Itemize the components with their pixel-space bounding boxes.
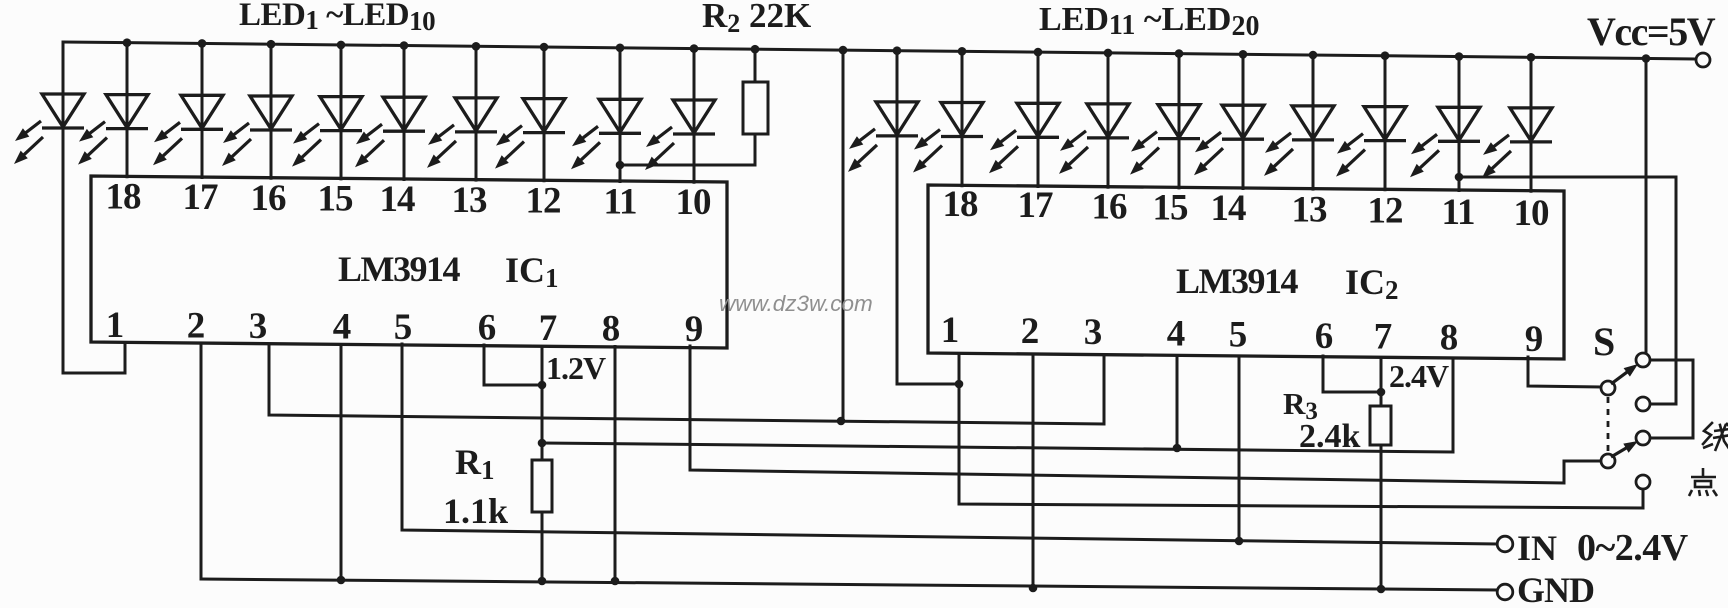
wire bbox=[270, 44, 273, 180]
svg-text:17: 17 bbox=[1018, 185, 1054, 226]
wire pin9 IC2 to switch bbox=[1528, 357, 1601, 387]
svg-text:1: 1 bbox=[941, 310, 960, 351]
resistor R3 bbox=[1370, 406, 1391, 445]
svg-text:LM3914: LM3914 bbox=[1176, 261, 1298, 301]
junction bbox=[1377, 388, 1386, 397]
svg-text:10: 10 bbox=[676, 182, 712, 223]
junction bbox=[893, 46, 902, 55]
wire Vcc drop bbox=[842, 50, 845, 421]
wire pin1 link bbox=[63, 343, 125, 373]
LED LED5 bbox=[292, 97, 362, 167]
LED LED6 bbox=[355, 97, 425, 167]
wire bbox=[961, 51, 964, 187]
wire pin5 IC1 to IN bus bbox=[402, 344, 1497, 544]
resistor R2 bbox=[620, 49, 768, 165]
label R1 bbox=[455, 442, 495, 485]
wire GND bus bbox=[201, 579, 1497, 590]
switch S dot throw bbox=[1636, 475, 1650, 489]
label 点 bbox=[1689, 468, 1717, 496]
svg-text:12: 12 bbox=[1368, 191, 1403, 232]
label IN 0~2.4V bbox=[1517, 527, 1689, 569]
junction bbox=[1527, 53, 1536, 62]
svg-text:17: 17 bbox=[183, 177, 219, 218]
svg-text:4: 4 bbox=[333, 307, 352, 348]
svg-text:16: 16 bbox=[1092, 186, 1128, 227]
label 2.4V bbox=[1389, 358, 1449, 394]
junction bbox=[337, 576, 346, 585]
wire bbox=[201, 43, 204, 179]
switch S lower pole bbox=[1601, 454, 1615, 468]
svg-text:5: 5 bbox=[1229, 314, 1248, 355]
svg-text:7: 7 bbox=[539, 308, 558, 349]
label S bbox=[1593, 319, 1615, 364]
label LM3914 IC1 bbox=[338, 249, 559, 293]
wire bbox=[1458, 57, 1461, 193]
label 2.4k bbox=[1299, 418, 1361, 455]
junction bbox=[1239, 50, 1248, 59]
op-amp IC2 LM3914 box bbox=[928, 185, 1564, 359]
junction bbox=[1173, 444, 1182, 453]
wire R1 bottom bbox=[541, 512, 544, 581]
wire bbox=[1242, 54, 1245, 190]
LED LED9 bbox=[571, 99, 641, 169]
wire throw tie loop bbox=[1650, 360, 1693, 438]
ground terminal GND bbox=[1497, 584, 1513, 600]
LED LED4 bbox=[222, 96, 292, 166]
junction bbox=[538, 577, 547, 586]
junction bbox=[400, 41, 409, 50]
junction bbox=[616, 44, 625, 53]
switch linkage bbox=[1607, 397, 1610, 452]
svg-text:18: 18 bbox=[106, 177, 142, 218]
svg-text:18: 18 bbox=[943, 184, 979, 225]
junction bbox=[1235, 537, 1244, 546]
svg-text:7: 7 bbox=[1374, 317, 1393, 358]
label R2 22K bbox=[702, 0, 811, 38]
junction bbox=[1309, 51, 1318, 60]
label 线 bbox=[1703, 423, 1728, 451]
LED LED1 bbox=[14, 94, 84, 164]
junction bbox=[616, 161, 625, 170]
wire pin4 IC2 bbox=[1176, 355, 1179, 448]
junction bbox=[1642, 54, 1651, 63]
pin labels IC2 bottom 1-9 bbox=[941, 310, 1544, 360]
svg-text:3: 3 bbox=[249, 306, 268, 347]
svg-text:2: 2 bbox=[187, 306, 206, 347]
wire 1.2V bus bbox=[542, 358, 1453, 452]
wire bbox=[1312, 55, 1315, 191]
LED LED15 bbox=[1130, 105, 1200, 175]
svg-text:www.dz3w.com: www.dz3w.com bbox=[719, 291, 873, 316]
svg-text:14: 14 bbox=[1211, 188, 1247, 229]
wire pin5 IC2 bbox=[1238, 355, 1241, 541]
wire LED1 column bbox=[62, 42, 65, 373]
LED LED19 bbox=[1410, 107, 1480, 177]
wire pin7 IC1 bbox=[541, 345, 544, 460]
LED LED11 bbox=[848, 102, 918, 172]
svg-text:1: 1 bbox=[106, 305, 125, 346]
svg-text:1.2V: 1.2V bbox=[546, 350, 606, 386]
svg-text:LED1 ~LED10: LED1 ~LED10 bbox=[239, 0, 435, 36]
wire pin2 IC1 bbox=[200, 343, 203, 579]
svg-text:1.1k: 1.1k bbox=[443, 491, 508, 531]
LED LED14 bbox=[1059, 104, 1129, 174]
label R3 bbox=[1283, 386, 1318, 425]
wire pin11 IC2 to throw bbox=[1459, 177, 1676, 404]
junction bbox=[837, 417, 846, 426]
LED LED13 bbox=[989, 103, 1059, 173]
junction bbox=[123, 38, 132, 47]
junction bbox=[1034, 48, 1043, 57]
pin labels IC1 top 18-10 bbox=[106, 177, 712, 224]
wire pin7 IC2 bbox=[1380, 356, 1383, 406]
LED LED8 bbox=[495, 99, 565, 169]
svg-text:2: 2 bbox=[1021, 311, 1040, 352]
svg-text:8: 8 bbox=[1440, 318, 1459, 359]
wire bbox=[126, 43, 129, 179]
wire bbox=[1384, 56, 1387, 192]
junction bbox=[337, 41, 346, 50]
junction bbox=[538, 439, 547, 448]
svg-text:0~2.4V: 0~2.4V bbox=[1577, 527, 1689, 569]
svg-text:10: 10 bbox=[1514, 193, 1550, 234]
svg-text:3: 3 bbox=[1084, 312, 1103, 353]
svg-text:4: 4 bbox=[1167, 314, 1186, 355]
svg-text:R2 22K: R2 22K bbox=[702, 0, 811, 38]
switch S upper pole bbox=[1601, 381, 1615, 395]
junction bbox=[1455, 52, 1464, 61]
junction bbox=[1104, 49, 1113, 58]
svg-text:15: 15 bbox=[1153, 187, 1189, 228]
label 1.1k bbox=[443, 491, 508, 531]
svg-text:14: 14 bbox=[380, 179, 416, 220]
wire Vcc top rail bbox=[63, 42, 1696, 59]
wire bbox=[1107, 53, 1110, 189]
svg-text:6: 6 bbox=[1315, 316, 1334, 357]
wire bbox=[619, 48, 622, 183]
junction bbox=[198, 39, 207, 48]
switch S upper arrow bbox=[1611, 364, 1638, 384]
junction bbox=[690, 44, 699, 53]
pin labels IC2 top 18-10 bbox=[943, 184, 1550, 234]
junction bbox=[267, 40, 276, 49]
LED LED10 bbox=[645, 100, 715, 170]
svg-text:S: S bbox=[1593, 319, 1615, 364]
svg-text:8: 8 bbox=[602, 309, 621, 350]
svg-text:13: 13 bbox=[452, 180, 488, 221]
switch S upper throw bbox=[1636, 353, 1650, 367]
wire LED11 column bbox=[897, 51, 959, 384]
wire bbox=[475, 46, 478, 181]
label Vcc=5V bbox=[1587, 9, 1716, 54]
wire pin4 IC1 bbox=[340, 344, 343, 580]
input terminal IN bbox=[1497, 536, 1513, 552]
wire bbox=[1530, 57, 1533, 192]
LED LED18 bbox=[1336, 107, 1406, 177]
switch S middle throw bbox=[1636, 397, 1650, 411]
wire pin6 IC2 bracket bbox=[1323, 356, 1381, 392]
label LM3914 IC2 bbox=[1176, 261, 1399, 305]
junction bbox=[1029, 584, 1038, 593]
pin labels IC1 bottom 1-9 bbox=[106, 305, 704, 350]
label GND bbox=[1517, 570, 1594, 608]
power terminal Vcc bbox=[1696, 53, 1710, 67]
svg-text:11: 11 bbox=[604, 181, 637, 222]
switch S lower arrow bbox=[1611, 441, 1638, 457]
svg-text:6: 6 bbox=[478, 308, 497, 349]
svg-text:LM3914: LM3914 bbox=[338, 249, 460, 289]
svg-text:IN: IN bbox=[1517, 528, 1557, 568]
svg-text:GND: GND bbox=[1517, 570, 1594, 603]
junction bbox=[1381, 51, 1390, 60]
svg-text:15: 15 bbox=[318, 179, 354, 220]
wire pin1 IC2 to dot-mode bus bbox=[959, 354, 1643, 508]
junction bbox=[958, 47, 967, 56]
LED LED12 bbox=[913, 103, 983, 173]
svg-text:9: 9 bbox=[1525, 319, 1544, 360]
junction bbox=[611, 577, 620, 586]
svg-text:12: 12 bbox=[526, 181, 561, 222]
wire bbox=[1178, 54, 1181, 190]
LED LED7 bbox=[427, 98, 497, 168]
wire Vcc to switch throw bbox=[1645, 59, 1648, 353]
junction bbox=[751, 45, 760, 54]
junction bbox=[955, 380, 964, 389]
wire bbox=[403, 46, 406, 182]
label LED1~LED10 bbox=[239, 0, 435, 36]
op-amp IC1 LM3914 box bbox=[91, 176, 727, 348]
wire pin8 IC1 bbox=[614, 345, 617, 581]
svg-text:11: 11 bbox=[1442, 192, 1475, 233]
junction bbox=[1455, 173, 1464, 182]
svg-text:9: 9 bbox=[685, 309, 704, 350]
junction bbox=[540, 43, 549, 52]
LED LED16 bbox=[1194, 105, 1264, 175]
svg-text:LED11 ~LED20: LED11 ~LED20 bbox=[1039, 1, 1260, 42]
junction bbox=[1175, 49, 1184, 58]
resistor R1 bbox=[532, 460, 552, 512]
switch S lower throw bbox=[1636, 431, 1650, 445]
svg-text:2.4k: 2.4k bbox=[1299, 418, 1361, 455]
wire bbox=[693, 49, 696, 184]
wire R3 bottom bbox=[1380, 445, 1383, 589]
label LED11~LED20 bbox=[1039, 1, 1260, 42]
svg-text:13: 13 bbox=[1292, 190, 1328, 231]
wire pin6 IC1 bracket bbox=[484, 345, 542, 385]
junction bbox=[1377, 585, 1386, 594]
LED LED17 bbox=[1264, 106, 1334, 176]
svg-text:16: 16 bbox=[251, 178, 287, 219]
label 1.2V bbox=[546, 350, 606, 386]
LED LED2 bbox=[78, 95, 148, 165]
wire bbox=[543, 47, 546, 182]
svg-text:Vcc=5V: Vcc=5V bbox=[1587, 9, 1716, 54]
wire bbox=[340, 45, 343, 181]
wire pin3 IC1 to V+ bus bbox=[269, 344, 1104, 424]
wire pin2 IC2 bbox=[1032, 354, 1035, 588]
svg-text:5: 5 bbox=[394, 307, 413, 348]
wire bbox=[1037, 52, 1040, 188]
watermark bbox=[719, 291, 873, 316]
junction bbox=[839, 46, 848, 55]
svg-text:2.4V: 2.4V bbox=[1389, 358, 1449, 394]
wire pin9 IC1 to switch bbox=[690, 346, 1601, 483]
junction bbox=[538, 381, 547, 390]
LED LED3 bbox=[153, 95, 223, 165]
junction bbox=[472, 42, 481, 51]
LED LED20 bbox=[1482, 108, 1552, 178]
